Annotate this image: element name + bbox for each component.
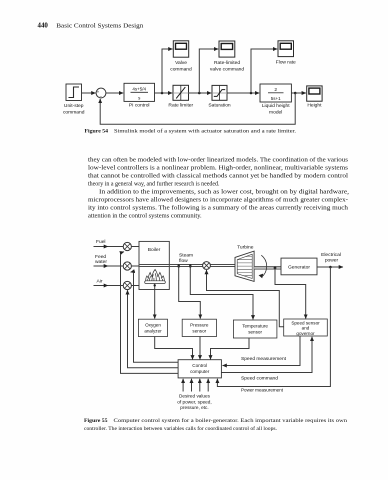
wire temperature sensor to computer [211, 338, 250, 359]
block Rate limiter [173, 85, 189, 100]
valve air [123, 281, 131, 289]
svg-text:Temperature: Temperature [242, 324, 268, 329]
svg-text:Flow rate: Flow rate [276, 59, 296, 65]
svg-text:model: model [269, 110, 282, 116]
scope Rate-limited valve command [219, 41, 235, 57]
svg-text:command: command [170, 66, 192, 72]
svg-text:valve command: valve command [210, 66, 245, 72]
block Pressure sensor [182, 319, 216, 336]
svg-text:Simulink model of a system wit: Simulink model of a system with actuator… [114, 128, 297, 135]
wire temperature tap to Temperature sensor [190, 266, 253, 320]
scope Valve command [173, 41, 188, 57]
svg-text:In addition to the improvement: In addition to the improvements, such as… [99, 189, 349, 196]
svg-text:sensor: sensor [192, 329, 206, 334]
junction node after Saturation [250, 92, 253, 95]
label Temperature sensor [242, 324, 268, 335]
svg-text:Desired values: Desired values [179, 394, 211, 399]
wire speed measurement [223, 336, 301, 366]
junction node shaft speed tap [274, 267, 277, 270]
svg-text:controller. The interaction be: controller. The interaction between vari… [84, 425, 278, 432]
svg-text:attention in the control syste: attention in the control systems communi… [88, 213, 202, 220]
block Control computer [178, 360, 221, 378]
source block Unit-step command [66, 84, 82, 101]
wire Air supply [94, 285, 109, 287]
svg-text:sensor: sensor [248, 330, 262, 335]
svg-text:Computer control system for a: Computer control system for a boiler-gen… [114, 417, 348, 424]
junction node before Height scope [294, 92, 297, 95]
wire Rate limiter to Saturation [189, 92, 212, 94]
svg-text:Oxygen: Oxygen [145, 323, 161, 328]
svg-text:Air: Air [97, 278, 103, 284]
wire PI control to Rate limiter [155, 92, 173, 94]
junction node after Rate limiter [198, 92, 201, 95]
svg-text:4s+5/4: 4s+5/4 [132, 86, 146, 91]
block Temperature sensor [233, 320, 277, 338]
label Valve command [170, 60, 192, 73]
svg-text:they can often be modeled with: they can often be modeled with low-order… [88, 157, 349, 164]
svg-text:Boiler: Boiler [148, 247, 161, 253]
wire flame to oxygen analyzer [154, 284, 156, 319]
svg-text:low-level controllers is a non: low-level controllers is a nonlinear pro… [88, 165, 349, 172]
scope Height [307, 86, 322, 101]
svg-text:Fuel: Fuel [96, 239, 106, 245]
block PI control [124, 83, 155, 101]
label Electrical power [321, 252, 341, 264]
wire fuel valve to boiler [131, 246, 139, 248]
wire generator output electrical power [317, 266, 343, 268]
svg-text:Turbine: Turbine [237, 244, 254, 250]
valve fuel [123, 242, 131, 250]
svg-text:2: 2 [274, 87, 277, 93]
label Oxygen analyzer [144, 323, 162, 334]
junction node temperature tap [189, 264, 191, 268]
svg-text:440: 440 [38, 23, 49, 30]
body paragraph [88, 157, 349, 220]
wire computer to air valve [128, 290, 179, 368]
svg-text:power: power [325, 258, 339, 264]
wire Feed water supply [94, 265, 109, 267]
junction node pressure tap [178, 264, 180, 268]
block Liquid height model [260, 84, 291, 102]
wire branch up to Flow rate scope [251, 49, 277, 93]
svg-text:analyzer: analyzer [144, 329, 162, 334]
block Oxygen analyzer [138, 319, 167, 336]
svg-text:water: water [95, 259, 107, 265]
wire Liquid height model to Height scope [291, 92, 306, 94]
svg-text:Unit-step: Unit-step [64, 103, 84, 109]
wire Unit-step to summer [82, 92, 96, 94]
svg-text:ity into control systems. The: ity into control systems. The following … [88, 205, 349, 212]
svg-text:governor: governor [296, 331, 315, 336]
svg-text:microprocessors have allowed d: microprocessors have allowed designers t… [88, 197, 348, 204]
block Generator [281, 258, 317, 275]
svg-text:Saturation: Saturation [208, 102, 231, 108]
flame burner in boiler [145, 269, 166, 283]
svg-text:Electrical: Electrical [321, 252, 341, 258]
wire oxygen analyzer to computer [155, 337, 193, 360]
wire feed water valve to boiler [131, 265, 139, 267]
svg-text:Speed measurement: Speed measurement [241, 356, 287, 362]
wire electrical tap to power measurement [217, 267, 330, 387]
wire branch up to Rate-limited scope [199, 49, 218, 93]
desired values input arrows [183, 379, 208, 392]
svg-text:Figure 55: Figure 55 [84, 418, 108, 424]
svg-text:PI control: PI control [129, 102, 150, 108]
svg-text:theory in a general way, and f: theory in a general way, and further res… [88, 181, 220, 188]
svg-text:Pressure: Pressure [190, 323, 209, 328]
wire computer to feed water valve [131, 272, 179, 362]
junction node after PI control [161, 92, 164, 95]
label Desired values [177, 394, 211, 411]
svg-text:computer: computer [190, 369, 210, 374]
label Control computer [190, 363, 210, 374]
svg-text:Speed command: Speed command [241, 376, 278, 382]
valve feed water [123, 262, 131, 270]
svg-text:5s+1: 5s+1 [271, 96, 281, 101]
wire computer to fuel valve [121, 252, 179, 374]
svg-text:Basic Control Systems Design: Basic Control Systems Design [56, 23, 144, 30]
svg-text:−: − [99, 94, 102, 99]
block Saturation [212, 85, 227, 100]
svg-text:of power, speed,: of power, speed, [177, 399, 211, 404]
valve steam [203, 262, 211, 270]
steam line double [139, 265, 235, 267]
wire pressure tap to Pressure sensor [179, 266, 201, 319]
svg-text:Steam: Steam [179, 253, 193, 259]
wire summer to PI control [106, 92, 123, 94]
wire governor to steam valve [207, 270, 285, 327]
svg-text:Power measurement: Power measurement [241, 388, 284, 394]
svg-text:Valve: Valve [175, 60, 187, 66]
label Pressure sensor [190, 323, 209, 334]
label Steam flow [179, 253, 193, 265]
junction node electrical power tap [329, 266, 332, 269]
wire shaft tap to speed sensor [275, 268, 306, 319]
block Boiler [139, 241, 169, 289]
wire speed command [221, 337, 312, 373]
wire feedback loop [100, 93, 295, 124]
wire Saturation to Liquid height model [227, 92, 259, 94]
svg-text:Control: Control [192, 363, 207, 368]
svg-text:Rate limiter: Rate limiter [168, 102, 193, 108]
shaft turbine to generator [254, 267, 281, 270]
wire branch up to Valve command scope [162, 49, 173, 93]
svg-text:flow: flow [179, 258, 188, 264]
label Feed water [95, 254, 107, 265]
summer junction [96, 88, 106, 99]
arrowhead into flame base [154, 284, 156, 286]
svg-text:Figure 54: Figure 54 [85, 129, 109, 135]
wire air valve to boiler [131, 285, 139, 287]
svg-text:Height: Height [307, 102, 322, 108]
label Liquid height model [262, 103, 290, 116]
svg-text:pressure, etc.: pressure, etc. [180, 405, 208, 410]
wire Fuel supply [94, 246, 109, 248]
label Unit-step command [63, 103, 85, 116]
svg-text:Rate-limited: Rate-limited [214, 60, 240, 66]
svg-text:Feed: Feed [95, 254, 106, 260]
svg-text:that cannot be controlled with: that cannot be controlled with classical… [88, 173, 348, 180]
label Rate-limited valve command [210, 60, 245, 73]
turbine [235, 251, 254, 281]
svg-text:Liquid height: Liquid height [262, 103, 290, 109]
wire pressure sensor to computer [199, 337, 201, 360]
scope Flow rate [278, 41, 294, 57]
svg-text:command: command [63, 110, 85, 116]
rotation arc on shaft [261, 255, 266, 277]
label Speed sensor and governor [291, 321, 320, 336]
svg-text:Generator: Generator [288, 264, 310, 270]
block Speed sensor and governor [284, 319, 328, 336]
